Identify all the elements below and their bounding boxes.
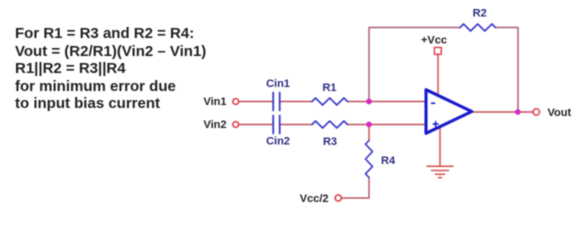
capacitor Cin2 <box>273 116 280 134</box>
terminal Vin2 <box>233 122 239 128</box>
wire feedback left vertical from node to top <box>369 28 460 102</box>
wire Cin1 to R1 <box>281 101 312 103</box>
svg-text:Vout: Vout <box>548 107 572 119</box>
svg-text:Vin2: Vin2 <box>203 119 226 131</box>
node on inverting input line <box>366 99 372 105</box>
resistor R2 <box>460 24 496 31</box>
wire op-amp bottom to ground <box>439 126 441 166</box>
terminal Vin1 <box>233 99 239 105</box>
terminal +Vcc square <box>434 47 441 54</box>
wire R2 to right vertical down to output node <box>496 28 519 113</box>
svg-text:Vin1: Vin1 <box>203 96 226 108</box>
svg-text:Cin2: Cin2 <box>266 136 290 148</box>
node on non-inverting input line <box>366 122 372 128</box>
resistor R3 <box>312 121 348 128</box>
op-amp U1 <box>426 90 472 134</box>
svg-text:R2: R2 <box>473 7 487 19</box>
wire R4 bottom to Vcc/2 <box>342 178 369 199</box>
svg-text:+Vcc: +Vcc <box>421 35 447 47</box>
wire R1 to op-amp inverting input <box>348 101 427 103</box>
terminal Vcc/2 <box>335 195 341 201</box>
svg-text:R1: R1 <box>322 82 336 94</box>
svg-text:R4: R4 <box>381 155 396 167</box>
terminal Vout <box>533 109 539 115</box>
svg-text:R3: R3 <box>323 136 337 148</box>
equation text block <box>15 25 206 113</box>
resistor R1 <box>312 98 348 105</box>
wire Vin2 to Cin2 <box>239 124 273 126</box>
capacitor Cin1 <box>273 93 280 111</box>
resistor R4 <box>366 141 373 178</box>
wire Vin1 to Cin1 <box>239 101 273 103</box>
wire Cin2 to R3 <box>281 124 312 126</box>
wire +Vcc square to op-amp top <box>437 55 439 98</box>
wire op-amp output to Vout <box>472 111 534 113</box>
node at output <box>515 109 521 115</box>
svg-text:Vcc/2: Vcc/2 <box>300 193 329 205</box>
wire R3 to op-amp non-inverting input <box>348 124 427 126</box>
wire R4 top from node <box>368 125 370 141</box>
svg-text:Cin1: Cin1 <box>266 78 290 90</box>
ground <box>427 166 453 177</box>
